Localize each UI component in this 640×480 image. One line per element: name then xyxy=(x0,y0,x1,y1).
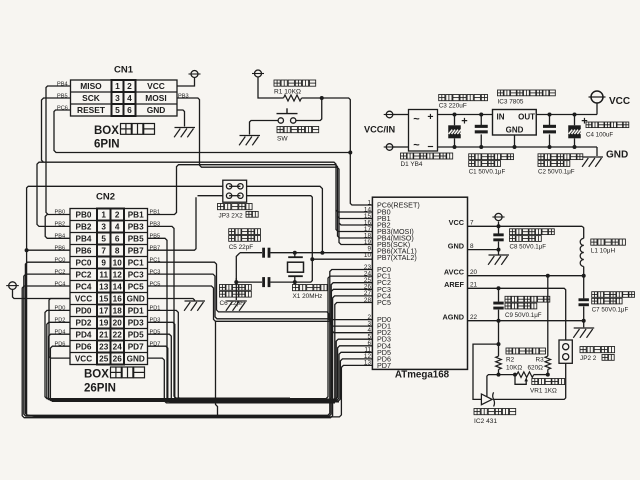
svg-text:PB7: PB7 xyxy=(150,246,161,252)
node AGND/C7 xyxy=(582,319,586,323)
wire VCC riser xyxy=(596,103,598,115)
wire JP3 row1 inner xyxy=(229,185,240,187)
svg-text:3: 3 xyxy=(101,223,106,232)
svg-text:SCK: SCK xyxy=(82,93,100,103)
svg-text:PC4: PC4 xyxy=(76,283,92,292)
wire CN2-PD0 wrap xyxy=(45,276,372,399)
wire CN2-VCC25 xyxy=(49,299,70,359)
svg-text:PD3: PD3 xyxy=(128,319,144,328)
svg-text:C2 50V0.1μF: C2 50V0.1μF xyxy=(538,169,575,176)
svg-text:14: 14 xyxy=(113,283,123,292)
label 三端子レギュレータ xyxy=(498,90,504,96)
svg-text:C3 220uF: C3 220uF xyxy=(439,103,467,110)
terminal VCC (CN2) xyxy=(9,282,17,290)
svg-text:BOX: BOX xyxy=(94,125,119,137)
svg-text:+: + xyxy=(427,111,433,123)
svg-text:6: 6 xyxy=(115,235,120,244)
svg-text:13: 13 xyxy=(99,283,109,292)
svg-text:5: 5 xyxy=(115,105,120,115)
svg-text:6: 6 xyxy=(127,105,132,115)
wire XTAL1 top xyxy=(28,185,223,187)
svg-text:PC3: PC3 xyxy=(150,270,161,276)
svg-text:R2: R2 xyxy=(506,357,515,364)
capacitor C6 xyxy=(262,277,265,287)
svg-text:OUT: OUT xyxy=(518,113,535,122)
regulator IC3 7805 xyxy=(493,110,537,136)
svg-text:20: 20 xyxy=(470,269,478,276)
wire CN2-GND26 wrap xyxy=(148,358,336,403)
wire R2bot to VR1 xyxy=(499,374,517,376)
wire XTAL2 top xyxy=(198,195,223,197)
wire AGND pin22 xyxy=(468,320,584,322)
svg-text:6PIN: 6PIN xyxy=(94,139,120,151)
svg-text:PC2: PC2 xyxy=(55,270,66,276)
wire CN1-GND xyxy=(177,110,185,127)
wire VCC pin7 xyxy=(468,225,583,227)
node AVCC/R3 xyxy=(546,274,550,278)
wire bus B3 exit PB5 xyxy=(339,223,372,245)
svg-text:9: 9 xyxy=(101,259,106,268)
svg-text:GND: GND xyxy=(147,105,166,115)
svg-text:C9 50V0.1μF: C9 50V0.1μF xyxy=(505,312,542,319)
svg-text:C4 100uF: C4 100uF xyxy=(586,132,613,139)
wire miniband to outer wrap xyxy=(216,321,220,417)
capacitor C7 (ceramic) xyxy=(583,276,585,299)
node RESET junction xyxy=(348,151,352,155)
svg-text:GND: GND xyxy=(127,295,145,304)
svg-text:8: 8 xyxy=(115,247,120,256)
wire node to RESET bus xyxy=(322,98,373,205)
capacitor C5 xyxy=(262,248,265,258)
wire bus B2 (CN2-PB1) xyxy=(148,165,373,219)
transistor IC2 431 (TL431) xyxy=(481,394,492,405)
svg-text:21: 21 xyxy=(470,282,478,289)
wire CN2-PB5 down xyxy=(148,238,301,401)
wire CN2-PD4 wrap xyxy=(49,303,373,401)
node C6 left xyxy=(234,280,238,284)
svg-text:12: 12 xyxy=(113,271,123,280)
node R3 bottom xyxy=(546,373,550,377)
svg-text:PD0: PD0 xyxy=(76,307,92,316)
wire CN2-PB4 row riser xyxy=(45,214,70,238)
diode bridge D1 xyxy=(409,110,438,152)
tact switch SW xyxy=(291,118,296,123)
svg-text:PB4: PB4 xyxy=(76,235,92,244)
wire CN1-MOSI/PB3 to bus xyxy=(177,98,372,225)
label セラミック (C6) xyxy=(220,285,226,291)
svg-text:8: 8 xyxy=(470,243,474,250)
wire CN2-PC2 wrap xyxy=(24,274,373,416)
svg-text:PC1: PC1 xyxy=(128,259,144,268)
capacitor C8 (ceramic) xyxy=(498,226,500,233)
wire AGND to R2 xyxy=(498,321,500,344)
node VCC/C8 xyxy=(497,224,501,228)
svg-text:C6 22pF: C6 22pF xyxy=(220,300,245,307)
svg-text:VCC: VCC xyxy=(75,295,92,304)
svg-text:PB4: PB4 xyxy=(55,234,66,240)
svg-text:GND: GND xyxy=(127,355,145,364)
terminal VCC (CN1) xyxy=(191,71,198,78)
svg-text:1: 1 xyxy=(367,199,371,206)
svg-text:AREF: AREF xyxy=(444,280,464,289)
wire VCC to R1 xyxy=(258,77,284,98)
wire R1 to node xyxy=(302,97,322,99)
node C2 top xyxy=(548,113,552,117)
svg-text:PB0: PB0 xyxy=(76,211,92,220)
svg-text:GND: GND xyxy=(606,150,628,161)
node R1/SW junction xyxy=(320,96,324,100)
label リファレンス xyxy=(474,409,480,415)
label C1 xyxy=(469,154,475,160)
svg-text:R3: R3 xyxy=(536,357,545,364)
svg-text:+: + xyxy=(581,116,587,128)
node C3 top xyxy=(453,113,457,117)
svg-text:MOSI: MOSI xyxy=(145,93,166,103)
node XTAL1/crystal xyxy=(293,251,297,255)
wire bus B1 exit PB3 xyxy=(336,210,372,232)
svg-text:GND: GND xyxy=(506,126,524,135)
svg-text:21: 21 xyxy=(99,331,109,340)
wire VR1 to R3 xyxy=(534,374,548,376)
svg-text:PD1: PD1 xyxy=(128,307,144,316)
svg-text:AVCC: AVCC xyxy=(444,268,465,277)
wire GND rail xyxy=(438,146,598,148)
wire AREF pin21 xyxy=(468,288,566,340)
wire CN2-PB3 down xyxy=(148,226,291,398)
node C3 bot xyxy=(453,145,457,149)
svg-text:VCC: VCC xyxy=(449,218,465,227)
svg-text:PD6: PD6 xyxy=(76,343,92,352)
svg-text:22: 22 xyxy=(470,314,478,321)
svg-text:C8 50V0.1μF: C8 50V0.1μF xyxy=(510,244,547,251)
ground (CN2) xyxy=(185,300,206,302)
wire bus B2b to PB4 pin xyxy=(338,217,373,239)
node PB6/XTAL1 wrap xyxy=(25,248,29,252)
svg-text:X1 20MHz: X1 20MHz xyxy=(293,293,323,300)
wire cathode to JP2 xyxy=(494,363,566,399)
wire CN2-PD2 wrap xyxy=(47,289,373,399)
svg-text:19: 19 xyxy=(99,319,109,328)
wire GND pin8 xyxy=(468,249,499,251)
svg-text:3: 3 xyxy=(115,93,120,103)
svg-text:5: 5 xyxy=(101,235,106,244)
svg-text:PC3: PC3 xyxy=(128,271,144,280)
svg-text:20: 20 xyxy=(113,319,123,328)
inductor L1 xyxy=(582,226,584,238)
resistor R3 xyxy=(547,369,549,374)
svg-text:620Ω: 620Ω xyxy=(528,364,544,371)
svg-text:4: 4 xyxy=(115,223,120,232)
svg-text:PB0: PB0 xyxy=(55,210,66,216)
svg-text:CN2: CN2 xyxy=(96,192,115,203)
terminal VCC (R1) xyxy=(255,70,262,77)
pin header JP2 xyxy=(559,340,572,363)
svg-text:17: 17 xyxy=(99,307,109,316)
svg-text:PD4: PD4 xyxy=(76,331,92,340)
capacitor C3 (electrolytic) xyxy=(454,115,456,126)
svg-text:25: 25 xyxy=(99,355,109,364)
node AREF/C9 xyxy=(497,286,501,290)
svg-text:D1 YB4: D1 YB4 xyxy=(401,161,423,168)
svg-text:10: 10 xyxy=(113,259,123,268)
svg-text:VCC: VCC xyxy=(75,355,92,364)
wire CN2-PC3 miniband xyxy=(148,274,373,326)
svg-text:26PIN: 26PIN xyxy=(84,383,116,395)
svg-text:15: 15 xyxy=(99,295,109,304)
label インダクタ xyxy=(591,239,597,245)
node C1 top xyxy=(479,113,483,117)
node C2 bot xyxy=(548,145,552,149)
svg-text:PB3: PB3 xyxy=(128,223,144,232)
svg-text:7: 7 xyxy=(470,220,474,227)
label セラミック (C5) xyxy=(229,229,235,235)
svg-text:22: 22 xyxy=(113,331,123,340)
connector CN1 table xyxy=(71,80,178,116)
node C1 bot xyxy=(479,145,483,149)
terminal VCC/IN+ xyxy=(386,111,393,118)
node R2 top xyxy=(497,342,501,346)
svg-text:1: 1 xyxy=(101,211,106,220)
svg-text:C1 50V0.1μF: C1 50V0.1μF xyxy=(469,169,506,176)
svg-text:7: 7 xyxy=(101,247,106,256)
node C4 bot xyxy=(573,145,577,149)
capacitor C2 (ceramic) xyxy=(549,115,551,126)
terminal VCC/IN- xyxy=(386,144,393,151)
ground (CN1) xyxy=(175,127,196,129)
node R2 bottom xyxy=(497,373,501,377)
svg-text:IC2 431: IC2 431 xyxy=(474,418,497,425)
crystal X1 xyxy=(288,256,303,258)
wire agnd stub xyxy=(583,321,585,328)
svg-text:PB7: PB7 xyxy=(128,247,144,256)
wire node down to SW xyxy=(296,98,322,121)
wire C6 line to XTAL2 xyxy=(270,259,312,282)
wire VCC rail xyxy=(438,114,493,116)
ground (power) xyxy=(583,156,604,158)
svg-text:2: 2 xyxy=(115,211,120,220)
node IC3 gnd xyxy=(513,145,517,149)
wire JP3 row2 inner xyxy=(229,195,240,197)
svg-text:IN: IN xyxy=(497,113,505,122)
label カーボン抵抗 xyxy=(274,80,280,86)
svg-text:PB1: PB1 xyxy=(128,211,144,220)
svg-text:−: − xyxy=(427,141,433,153)
node VR1 left xyxy=(513,373,517,377)
svg-text:2: 2 xyxy=(127,81,132,91)
wire CN1-SCK/PB5 to bus xyxy=(42,98,71,162)
label カーボン抵抗 (R2/R3) xyxy=(506,348,512,354)
svg-text:C7 50V0.1μF: C7 50V0.1μF xyxy=(592,306,629,313)
terminal VCC (pin7) xyxy=(498,222,500,227)
ground (C5/C6) xyxy=(226,300,247,302)
svg-text:PD2: PD2 xyxy=(76,319,92,328)
resistor R2 xyxy=(498,344,500,356)
wire REF xyxy=(487,375,499,397)
label ピンヘッダ (JP3) xyxy=(218,204,224,210)
svg-text:11: 11 xyxy=(99,271,108,280)
wire CN2-PD6 wrap xyxy=(50,339,372,401)
node XTAL2/JP3 xyxy=(310,257,314,261)
svg-text:PC5: PC5 xyxy=(377,298,391,307)
svg-text:ATmega168: ATmega168 xyxy=(395,370,450,381)
svg-text:SW: SW xyxy=(277,136,288,143)
label C9 xyxy=(505,296,511,302)
wire CN1-RESET/PC6 line A xyxy=(54,110,350,153)
wire CN2-PD5 wrap xyxy=(148,334,373,401)
node GND/C8 xyxy=(497,248,501,252)
wire C5-C6 left link xyxy=(236,253,240,300)
label ダイオードブリッジ xyxy=(401,153,407,159)
svg-text:PB6: PB6 xyxy=(76,247,92,256)
svg-text:PC2: PC2 xyxy=(76,271,92,280)
wire CN2-PC1 miniband xyxy=(148,262,373,319)
svg-text:PC5: PC5 xyxy=(128,283,144,292)
capacitor C4 (electrolytic) xyxy=(574,115,576,126)
svg-text:1: 1 xyxy=(115,81,120,91)
capacitor C1 (ceramic) xyxy=(480,115,482,126)
wire XTAL2 line xyxy=(312,258,372,260)
svg-text:AGND: AGND xyxy=(443,313,465,322)
label ピンヘッダ (JP2) xyxy=(580,347,586,353)
ground (AGND/C7) xyxy=(574,327,595,329)
wire gnd stub (C8) xyxy=(498,250,500,255)
svg-text:PC4: PC4 xyxy=(55,282,66,288)
capacitor C9 (ceramic) xyxy=(498,288,500,301)
svg-text:~: ~ xyxy=(413,140,420,152)
wire CN2-PD3 wrap xyxy=(148,322,373,400)
wire CN1-VCC to terminal xyxy=(177,78,195,86)
svg-text:23: 23 xyxy=(99,343,109,352)
wire outer wrap (XTAL1) xyxy=(27,186,373,417)
pin header JP3 xyxy=(223,180,247,202)
svg-text:PB2: PB2 xyxy=(76,223,92,232)
svg-text:C5 22pF: C5 22pF xyxy=(229,244,254,251)
node AVCC/C7 xyxy=(582,274,586,278)
wire CN2-PD7 wrap xyxy=(148,346,340,402)
svg-text:PC5: PC5 xyxy=(150,282,161,288)
wire R3 to AVCC xyxy=(547,276,549,344)
label コンデンサ (C5) xyxy=(229,236,235,242)
wire in- xyxy=(393,146,409,148)
svg-text:~: ~ xyxy=(413,114,420,126)
wire CN2-PC5 miniband xyxy=(148,286,373,333)
svg-text:PB5: PB5 xyxy=(128,235,144,244)
label コンデンサ (C6) xyxy=(220,291,226,297)
ground (SW) xyxy=(240,135,261,137)
wire terminal to VCC15 xyxy=(13,289,71,298)
label C2 xyxy=(538,154,544,160)
label クリスタル xyxy=(293,285,299,291)
svg-text:24: 24 xyxy=(113,343,123,352)
svg-text:PB7(XTAL2): PB7(XTAL2) xyxy=(377,253,417,262)
svg-text:26: 26 xyxy=(113,355,123,364)
svg-text:JP3 2X2: JP3 2X2 xyxy=(219,213,244,220)
node crystal/C6 xyxy=(293,280,297,284)
label C8 xyxy=(510,229,516,235)
wire CN2-PC0 wrap xyxy=(25,262,372,415)
wire in+ xyxy=(393,114,409,116)
svg-text:VCC/IN: VCC/IN xyxy=(364,125,396,135)
resistor R1 xyxy=(284,95,302,101)
wire CN2-GND16 xyxy=(148,299,195,301)
svg-text:VCC: VCC xyxy=(147,81,165,91)
svg-text:16: 16 xyxy=(113,295,123,304)
svg-text:4: 4 xyxy=(127,93,132,103)
svg-text:VCC: VCC xyxy=(609,96,630,107)
svg-text:RESET: RESET xyxy=(77,105,106,115)
wire CN1-MISO/PB4 to CN2-PB0 xyxy=(46,86,71,215)
svg-text:JP2 2: JP2 2 xyxy=(580,355,597,362)
ground (C8) xyxy=(489,254,510,256)
label 半固定抵抗 xyxy=(532,379,538,385)
wire VR1 wiper xyxy=(515,375,526,385)
wire GND stub xyxy=(596,147,598,156)
svg-text:18: 18 xyxy=(113,307,123,316)
svg-text:VR1 1KΩ: VR1 1KΩ xyxy=(530,388,557,395)
svg-text:CN1: CN1 xyxy=(114,65,134,76)
wire IC3 gnd xyxy=(514,135,516,147)
label 電解コンデンサ C4 xyxy=(586,122,592,128)
wire R2top to anode xyxy=(473,344,499,399)
terminal VCC main xyxy=(591,91,603,103)
svg-text:L1 10μH: L1 10μH xyxy=(591,248,616,255)
svg-text:10KΩ: 10KΩ xyxy=(506,364,522,371)
ic IC1 ATmega168 box xyxy=(372,197,467,369)
label C7 xyxy=(592,292,598,298)
label 電解コンデンサ xyxy=(439,95,445,101)
wire CN2-PB6 row xyxy=(27,249,70,251)
connector CN2 table xyxy=(70,209,148,365)
svg-text:R1 10KΩ: R1 10KΩ xyxy=(274,89,301,96)
svg-text:GND: GND xyxy=(448,241,464,250)
label タクトスイッチ xyxy=(277,127,283,133)
node AGND/C9 xyxy=(497,319,501,323)
node C4 top xyxy=(573,113,577,117)
wire SW to ground xyxy=(250,121,279,135)
svg-text:PD5: PD5 xyxy=(128,331,144,340)
wire AVCC pin20 xyxy=(468,275,584,277)
trimmer VR1 xyxy=(517,372,534,378)
svg-text:+: + xyxy=(461,116,467,128)
wire bus B1 (CN2-PB2) xyxy=(37,162,372,226)
wire JP3-BL to CN2 PB7 xyxy=(148,197,197,250)
svg-text:PD7: PD7 xyxy=(377,361,391,370)
node XTAL1/JP3 xyxy=(320,251,324,255)
svg-text:BOX: BOX xyxy=(84,369,109,381)
svg-text:PD7: PD7 xyxy=(128,343,144,352)
svg-text:MISO: MISO xyxy=(80,81,102,91)
wire CN2-PD1 wrap xyxy=(148,310,373,399)
wire XTAL1 line xyxy=(270,252,372,254)
svg-text:IC3 7805: IC3 7805 xyxy=(498,99,524,106)
wire CN2-PC4 wrap xyxy=(22,286,372,418)
svg-text:PC0: PC0 xyxy=(76,259,92,268)
